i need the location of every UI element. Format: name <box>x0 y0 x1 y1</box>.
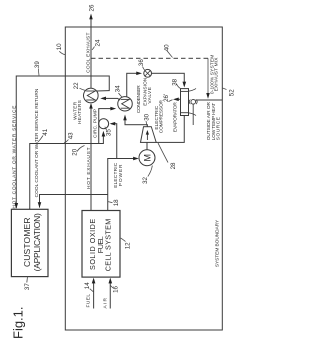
svg-text:22: 22 <box>73 82 80 89</box>
svg-text:FUEL: FUEL <box>86 294 92 308</box>
svg-text:32: 32 <box>142 176 149 183</box>
svg-text:28: 28 <box>170 162 177 169</box>
svg-text:CIRC. PUMP: CIRC. PUMP <box>93 109 99 138</box>
svg-text:AIR: AIR <box>102 297 108 308</box>
svg-text:12: 12 <box>124 242 131 249</box>
svg-text:(APPLICATION): (APPLICATION) <box>32 213 42 271</box>
svg-text:SYSTEM BOUNDARY: SYSTEM BOUNDARY <box>214 219 220 267</box>
svg-text:COOL EXHAUST: COOL EXHAUST <box>85 33 91 73</box>
svg-text:35: 35 <box>105 129 112 136</box>
svg-text:16: 16 <box>113 285 120 292</box>
svg-text:HEATERS: HEATERS <box>77 100 83 124</box>
svg-text:26: 26 <box>89 4 96 11</box>
svg-text:38: 38 <box>172 78 179 85</box>
svg-text:EVAPORATOR: EVAPORATOR <box>173 102 179 132</box>
svg-text:COMPRESSOR: COMPRESSOR <box>159 99 165 133</box>
svg-text:39: 39 <box>34 61 41 68</box>
svg-text:41: 41 <box>42 128 49 135</box>
svg-text:37: 37 <box>24 283 31 290</box>
svg-text:POWER: POWER <box>118 164 124 186</box>
svg-text:34: 34 <box>115 85 122 92</box>
svg-text:M: M <box>142 154 152 162</box>
svg-text:10: 10 <box>56 43 63 50</box>
svg-text:EXHAUST MIX: EXHAUST MIX <box>214 57 220 92</box>
svg-text:HOT EXHAUST: HOT EXHAUST <box>86 147 92 189</box>
svg-text:SOURCE: SOURCE <box>216 117 222 140</box>
svg-text:14: 14 <box>84 282 91 289</box>
svg-text:20: 20 <box>71 148 78 155</box>
svg-text:CELL SYSTEM: CELL SYSTEM <box>104 219 113 271</box>
svg-text:VALVE: VALVE <box>147 87 153 104</box>
svg-text:18: 18 <box>113 199 120 206</box>
svg-text:Fig.1.: Fig.1. <box>11 306 26 339</box>
svg-text:40: 40 <box>164 44 171 51</box>
svg-text:COOL COOLANT OR WATER SERVICE: COOL COOLANT OR WATER SERVICE RETURN <box>34 88 40 197</box>
svg-text:36: 36 <box>138 59 145 66</box>
svg-text:26': 26' <box>163 94 170 102</box>
svg-text:HOT COOLANT OR WATER SERVICE: HOT COOLANT OR WATER SERVICE <box>12 106 18 209</box>
svg-text:52: 52 <box>228 89 235 96</box>
svg-text:CUSTOMER: CUSTOMER <box>22 218 32 268</box>
svg-text:24: 24 <box>95 39 102 46</box>
svg-text:CONDENSER: CONDENSER <box>136 85 142 113</box>
svg-text:30: 30 <box>143 113 150 120</box>
svg-text:43: 43 <box>68 132 75 139</box>
